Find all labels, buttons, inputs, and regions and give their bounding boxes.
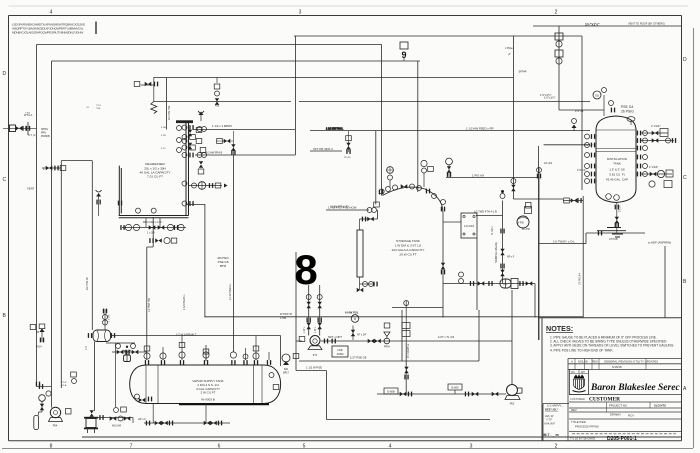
svg-text:1½"x1": 1½"x1" bbox=[575, 109, 584, 113]
wire loop arc bbox=[383, 187, 444, 317]
svg-text:TYLP: TYLP bbox=[61, 382, 67, 384]
svg-text:5: 5 bbox=[303, 444, 306, 450]
suction leg and catch pot bbox=[34, 402, 44, 430]
wire line 360 bbox=[299, 360, 479, 362]
svg-text:1 x 3/4: 1 x 3/4 bbox=[147, 232, 155, 235]
svg-text:AT HUB: AT HUB bbox=[609, 238, 618, 241]
frame grid numbers top bbox=[50, 10, 558, 16]
labels near distillation bbox=[575, 109, 660, 172]
svg-text:PC-P6: PC-P6 bbox=[344, 157, 351, 159]
svg-text:M.7 . _ m: M.7 . _ m bbox=[544, 433, 559, 437]
svg-text:MDNBVCXZLAKSJDHFGQWPEORIUTYBNM: MDNBVCXZLAKSJDHFGQWPEORIUTYBNMSDKLFJGHW bbox=[12, 31, 83, 35]
wire 1-D-001 outlet bbox=[476, 215, 503, 217]
loop arc flanged valves bbox=[379, 184, 446, 274]
distillation right assemblies bbox=[641, 129, 676, 188]
svg-text:2: 2 bbox=[555, 10, 558, 16]
degreaser tank bbox=[119, 120, 193, 218]
wire vertical 559 bbox=[558, 26, 560, 110]
valve pair on line S bbox=[332, 339, 409, 380]
wire left vertical 51 bbox=[51, 61, 53, 408]
wire line S 341 bbox=[296, 340, 512, 342]
left valve pair 168 bbox=[43, 166, 66, 172]
svg-text:PD/80B: PD/80B bbox=[41, 135, 50, 138]
ti circles line 185 bbox=[189, 182, 228, 190]
separator lower outlet bbox=[106, 343, 135, 407]
svg-text:NT x DF: NT x DF bbox=[357, 334, 367, 337]
sample vertical fittings bbox=[500, 190, 515, 276]
svg-text:SPT#P: SPT#P bbox=[519, 71, 527, 74]
svg-text:RCV: RCV bbox=[628, 414, 634, 418]
svg-text:C: C bbox=[3, 177, 7, 183]
valve box row y143 bbox=[216, 131, 236, 155]
svg-text:F014: F014 bbox=[36, 346, 42, 349]
svg-text:2 W CU FT: 2 W CU FT bbox=[201, 391, 216, 395]
svg-text:1 1/2 HW FEED x PR: 1 1/2 HW FEED x PR bbox=[466, 127, 494, 131]
E-600 tag 2 bbox=[448, 384, 462, 394]
svg-text:PSE G4: PSE G4 bbox=[621, 105, 633, 109]
line labels bottom center bbox=[176, 333, 455, 370]
svg-text:1 1/4 x 1 MPRV: 1 1/4 x 1 MPRV bbox=[212, 124, 232, 128]
svg-text:1/2 TWD 4TH 4-1 B: 1/2 TWD 4TH 4-1 B bbox=[474, 210, 497, 214]
wire vertical 295 bbox=[294, 36, 296, 155]
svg-text:1 PIG HX: 1 PIG HX bbox=[472, 174, 484, 178]
wire vertical 535 bbox=[534, 284, 536, 318]
svg-text:1.5' & 3' SS: 1.5' & 3' SS bbox=[609, 168, 625, 172]
wire vertical 296 bbox=[295, 252, 297, 371]
svg-text:CUSTOMER: CUSTOMER bbox=[589, 397, 620, 403]
wire separator out header bbox=[112, 335, 281, 337]
vapor tank bottom manifold valves bbox=[146, 404, 222, 426]
degreaser bottom manifold bbox=[120, 218, 186, 231]
svg-text:W PR3 HX: W PR3 HX bbox=[280, 313, 292, 316]
svg-text:TITLE P&ID: TITLE P&ID bbox=[571, 420, 586, 424]
flange on left line bbox=[36, 382, 40, 387]
left labels center bbox=[280, 313, 292, 320]
wire drain L line bbox=[296, 371, 490, 420]
distillation right nozzles bbox=[637, 131, 648, 177]
svg-text:REV: REV bbox=[571, 408, 577, 412]
line labels right bbox=[313, 22, 671, 245]
vapor tank nozzle stems bbox=[163, 336, 269, 361]
degreaser left wall flange bbox=[118, 201, 122, 206]
svg-text:8: 8 bbox=[294, 246, 317, 293]
svg-text:PI: PI bbox=[354, 317, 357, 321]
wire header D bbox=[153, 77, 513, 79]
wire vertical 538 bbox=[538, 146, 540, 340]
svg-text:GENERAL REVISION UTILITY UPDAT: GENERAL REVISION UTILITY UPDATES bbox=[604, 360, 658, 364]
svg-text:VVA.W.F: VVA.W.F bbox=[544, 422, 555, 426]
logo emblem bbox=[570, 370, 589, 395]
svg-text:DISTILLATION: DISTILLATION bbox=[607, 157, 627, 161]
degreaser interior heater circles bbox=[136, 208, 157, 213]
storage gauge column bbox=[357, 230, 363, 277]
svg-text:1½"x1½": 1½"x1½" bbox=[544, 96, 556, 100]
wire vertical 582 bbox=[581, 36, 583, 190]
svg-text:NP x F: NP x F bbox=[507, 256, 515, 259]
sample point riser bbox=[402, 301, 410, 359]
labels near 513 vertical bbox=[505, 47, 527, 74]
E-600 tag 1 bbox=[384, 388, 398, 394]
svg-text:CUSTOMER: CUSTOMER bbox=[570, 397, 585, 401]
manifold text bbox=[143, 221, 162, 235]
relief valve on header D bbox=[214, 78, 220, 108]
storage column bottom valves bbox=[357, 282, 378, 293]
svg-text:P04: P04 bbox=[53, 424, 58, 428]
storage column top valves bbox=[362, 202, 380, 221]
svg-text:Baron Blakeslee Serec: Baron Blakeslee Serec bbox=[590, 383, 680, 393]
svg-text:1/2 W ASPHALT: 1/2 W ASPHALT bbox=[176, 333, 197, 337]
degreaser top relief valve bbox=[198, 111, 204, 121]
wire line 307 bbox=[392, 307, 443, 309]
svg-text:1/2? x TL 3/4: 1/2? x TL 3/4 bbox=[438, 335, 455, 339]
relief station left bbox=[30, 324, 45, 349]
jumper 36 to 51 bbox=[37, 384, 52, 389]
svg-text:PROCESS PIPING: PROCESS PIPING bbox=[575, 425, 599, 429]
svg-text:WX: WX bbox=[581, 371, 585, 374]
fittings top of 539 bbox=[537, 162, 553, 178]
svg-text:SAMPLE VALVE: SAMPLE VALVE bbox=[494, 242, 498, 263]
svg-text:4 HW: 4 HW bbox=[280, 317, 287, 320]
left feed labels bbox=[24, 114, 50, 138]
wire left vertical 36 bbox=[36, 45, 38, 387]
svg-text:P02: P02 bbox=[510, 402, 515, 406]
1-D-001 filter box bbox=[443, 213, 477, 238]
relief valve left of degreaser bbox=[96, 190, 102, 216]
frame grid numbers bottom bbox=[50, 444, 558, 450]
svg-text:1/2 HW FR4 B: 1/2 HW FR4 B bbox=[206, 152, 222, 155]
svg-text:DRAWN: DRAWN bbox=[610, 413, 620, 417]
W PSL pump bbox=[517, 207, 532, 232]
drop leg with valve bbox=[351, 326, 367, 341]
svg-text:6 HW PSL: 6 HW PSL bbox=[345, 311, 359, 315]
instruments above pump bbox=[39, 391, 51, 401]
svg-text:6: 6 bbox=[218, 444, 221, 450]
wire vertical 583 bbox=[582, 196, 584, 318]
svg-text:1 W L: 1 W L bbox=[314, 326, 317, 333]
svg-text:1½ SAMPLE: 1½ SAMPLE bbox=[406, 343, 410, 358]
svg-text:E-60B: E-60B bbox=[387, 390, 394, 394]
wire line 177 bbox=[446, 177, 539, 179]
wire vertical 166 bbox=[166, 78, 168, 130]
storage tank label bbox=[392, 239, 425, 257]
svg-text:1 x 3/4: 1 x 3/4 bbox=[109, 314, 111, 322]
wire vertical 477 bbox=[477, 238, 479, 311]
top right double valve stack bbox=[555, 33, 563, 64]
fitting row above pump bbox=[61, 372, 77, 387]
feed valves left of vapor tank bbox=[112, 344, 147, 355]
svg-text:F 1A: F 1A bbox=[161, 126, 166, 129]
pump P04 bbox=[49, 407, 72, 427]
svg-text:D: D bbox=[3, 71, 7, 77]
degreaser nozzle line 129 bbox=[193, 129, 295, 131]
svg-text:29 W CU FT: 29 W CU FT bbox=[399, 253, 416, 257]
wire heater box bbox=[402, 310, 479, 361]
wire vertical 539 bbox=[538, 168, 540, 340]
svg-text:PR04: PR04 bbox=[384, 347, 390, 349]
degreaser wall nozzle circles bbox=[182, 125, 195, 206]
svg-text:7: 7 bbox=[130, 444, 133, 450]
wire vertical 417 bbox=[417, 61, 419, 192]
svg-text:W01 HW: W01 HW bbox=[112, 426, 122, 428]
wire vertical 512 bbox=[511, 290, 513, 385]
svg-text:BPLT: BPLT bbox=[283, 371, 289, 374]
svg-text:HP x F: HP x F bbox=[138, 417, 146, 421]
svg-text:4: 4 bbox=[50, 10, 53, 16]
svg-text:6T1: 6T1 bbox=[313, 353, 318, 357]
svg-text:TANK: TANK bbox=[613, 162, 621, 166]
right bottom gearbox bbox=[332, 346, 348, 357]
svg-text:3. APPLY ANTI-SEIZE ON THREADS: 3. APPLY ANTI-SEIZE ON THREADS OF LEVEL … bbox=[550, 344, 674, 348]
svg-text:2: 2 bbox=[555, 444, 558, 450]
wire ground line right bbox=[539, 233, 646, 244]
svg-text:1½"x1¼": 1½"x1¼" bbox=[585, 23, 600, 27]
legend stamp top-left bbox=[12, 23, 86, 35]
vapor tank left cap fittings bbox=[135, 394, 153, 402]
nozzle stem boxes bbox=[144, 343, 299, 359]
svg-text:X AN: X AN bbox=[25, 112, 30, 115]
svg-text:1½"x1": 1½"x1" bbox=[584, 143, 593, 147]
svg-text:F 1B: F 1B bbox=[161, 135, 166, 137]
wire line 204 bbox=[187, 204, 205, 206]
svg-text:1½ PIG 8-4: 1½ PIG 8-4 bbox=[578, 272, 582, 285]
distillation bottom piping bbox=[606, 194, 622, 233]
svg-text:1½ TW/DY x O-L: 1½ TW/DY x O-L bbox=[553, 240, 575, 244]
svg-text:PSE: PSE bbox=[215, 106, 220, 108]
svg-text:KN PSI: KN PSI bbox=[522, 228, 530, 231]
svg-text:NOTES:: NOTES: bbox=[546, 324, 573, 333]
svg-text:PROJECT NO: PROJECT NO bbox=[609, 404, 628, 408]
svg-text:1"x3/4": 1"x3/4" bbox=[649, 165, 658, 169]
valve pair right of degreaser 163 bbox=[198, 161, 204, 174]
title block bbox=[543, 359, 682, 441]
wire line 160 bbox=[61, 160, 92, 162]
svg-text:1 1/2 HW FR4 L: 1 1/2 HW FR4 L bbox=[326, 127, 344, 130]
rows text bbox=[544, 404, 666, 429]
wire vent header top right bbox=[533, 25, 681, 27]
funnel drain bbox=[384, 323, 391, 349]
svg-text:4: 4 bbox=[389, 444, 392, 450]
separator feed valves bbox=[103, 309, 111, 330]
vapor tank label bbox=[192, 379, 223, 402]
svg-text:D: D bbox=[683, 57, 687, 63]
svg-text:SG: SG bbox=[595, 94, 599, 98]
frame row letters bbox=[3, 57, 688, 392]
relief drop at 348 bbox=[344, 131, 351, 159]
distillation left nozzles bbox=[585, 134, 596, 184]
svg-text:OC.A: OC.A bbox=[61, 384, 67, 387]
wire left vertical 61 bbox=[60, 161, 62, 388]
wire stem 206 bbox=[205, 345, 207, 361]
svg-text:UFT PR 34/D 4: UFT PR 34/D 4 bbox=[313, 147, 333, 151]
wire top header bbox=[294, 35, 582, 37]
revision row text bbox=[571, 360, 658, 370]
vapor tank bottom weld bbox=[179, 403, 269, 405]
svg-text:BTM: BTM bbox=[220, 264, 227, 268]
distillation label bbox=[606, 157, 628, 182]
svg-text:F-P: F-P bbox=[85, 346, 88, 350]
svg-text:1 1/2 W PSE: 1 1/2 W PSE bbox=[306, 366, 322, 370]
distillation tank bbox=[596, 116, 636, 203]
svg-text:4 x W BARDLL: 4 x W BARDLL bbox=[229, 283, 232, 300]
pump 6T1 bbox=[299, 336, 328, 358]
vapor tank top nozzles bbox=[144, 352, 271, 365]
svg-text:D205-P001-1: D205-P001-1 bbox=[607, 436, 637, 442]
svg-text:43.46 GAL. CAP: 43.46 GAL. CAP bbox=[606, 178, 628, 182]
vapor tank right cap fittings bbox=[269, 373, 279, 390]
wire vertical 406 bbox=[405, 343, 407, 394]
distillation top instruments bbox=[559, 88, 635, 126]
svg-text:26 PSIG: 26 PSIG bbox=[621, 110, 634, 114]
wire riser 319 bbox=[319, 285, 321, 336]
wire vertical 153 bbox=[147, 217, 153, 360]
wire storage feed corner bbox=[360, 131, 378, 219]
wire header C bbox=[52, 60, 421, 62]
relief at header right end bbox=[572, 119, 577, 132]
big center box label bbox=[217, 256, 229, 268]
F9 pump assembly bbox=[459, 272, 533, 289]
svg-text:1 W L: 1 W L bbox=[303, 326, 306, 333]
wire mid header 101 bbox=[154, 101, 590, 103]
svg-text:VENT: VENT bbox=[27, 187, 35, 191]
svg-text:F 1C: F 1C bbox=[161, 148, 166, 150]
cluster below vapor tank left bbox=[110, 407, 131, 428]
svg-text:N. 1/2 x: N. 1/2 x bbox=[491, 226, 494, 235]
degreaser label bbox=[140, 162, 171, 179]
svg-text:N.T. (2: N.T. (2 bbox=[28, 134, 36, 137]
svg-text:224 GAL/LA CAPACITY: 224 GAL/LA CAPACITY bbox=[392, 248, 425, 252]
svg-text:4. PIPE POS LINE TO HIGH END O: 4. PIPE POS LINE TO HIGH END OF TANK. bbox=[550, 349, 613, 353]
svg-text:SLD NTS: SLD NTS bbox=[654, 404, 666, 408]
tiny labels left column bbox=[25, 105, 102, 115]
ground symbol bbox=[597, 228, 626, 238]
svg-text:A: A bbox=[571, 360, 573, 364]
svg-text:NPT x NPT: NPT x NPT bbox=[328, 335, 342, 339]
PI circle on header bbox=[345, 311, 359, 323]
wire vertical 382 bbox=[381, 45, 383, 196]
wire vertical 665 bbox=[664, 246, 666, 318]
svg-text:LWR: LWR bbox=[337, 349, 342, 352]
wire vertical 513 bbox=[513, 36, 563, 199]
svg-text:6/18/18: 6/18/18 bbox=[612, 365, 622, 369]
svg-text:VENT TO ROOF (BY OTHERS): VENT TO ROOF (BY OTHERS) bbox=[628, 22, 665, 26]
valve stubs near 8 bbox=[303, 295, 322, 334]
vent tee on ground line bbox=[598, 231, 602, 236]
wire vertical 233 bbox=[232, 155, 234, 352]
NOTES box bbox=[538, 318, 682, 441]
svg-text:1/2? PSE G8: 1/2? PSE G8 bbox=[350, 356, 367, 360]
wire main header R bbox=[205, 316, 583, 318]
vapor supply tank bbox=[130, 365, 281, 404]
svg-text:T/1.18 5/7/18 CHKD: T/1.18 5/7/18 CHKD bbox=[570, 437, 595, 441]
wire line 210 bbox=[326, 209, 369, 211]
PSE label bbox=[621, 105, 634, 114]
wire line 155 bbox=[195, 154, 295, 156]
lower filter vessel bbox=[84, 410, 133, 433]
wire vapor cap riser bbox=[280, 336, 282, 367]
svg-text:6/21/18: 6/21/18 bbox=[578, 360, 588, 364]
wire left vertical 92 bbox=[91, 161, 93, 330]
svg-text:1 1/4 BARDLL: 1 1/4 BARDLL bbox=[183, 293, 186, 310]
svg-text:1/2 x3/4: 1/2 x3/4 bbox=[544, 162, 553, 165]
manifold second row bbox=[149, 238, 177, 244]
svg-text:W PSI: W PSI bbox=[517, 222, 524, 225]
corner box 513 bbox=[511, 179, 583, 286]
svg-text:NO: NO bbox=[571, 371, 575, 374]
svg-text:DEE USL*: DEE USL* bbox=[545, 408, 559, 412]
svg-text:E-609: E-609 bbox=[452, 386, 459, 390]
pump P02 bbox=[505, 385, 522, 406]
wire F9 line bbox=[443, 283, 535, 285]
9 tag bbox=[400, 42, 408, 61]
wire center header bbox=[310, 130, 590, 132]
svg-text:1"x3/4": 1"x3/4" bbox=[651, 124, 660, 128]
wire sample vertical 502 bbox=[502, 201, 504, 284]
svg-text:3: 3 bbox=[299, 10, 302, 16]
svg-text:MFD LWR x L/W: MFD LWR x L/W bbox=[143, 221, 162, 224]
svg-text:1 W DIA & 3 ST LG: 1 W DIA & 3 ST LG bbox=[395, 244, 422, 248]
wire separator link bbox=[94, 342, 96, 412]
wire vertical 205 bbox=[204, 204, 206, 318]
wire header B bbox=[37, 44, 382, 46]
svg-text:1-D-001: 1-D-001 bbox=[464, 224, 475, 228]
small pump bottom left center bbox=[282, 354, 290, 374]
svg-text:1/2 PRV 30: 1/2 PRV 30 bbox=[86, 277, 89, 290]
svg-text:7.01 CU FT: 7.01 CU FT bbox=[147, 175, 163, 179]
wire line 151 bbox=[310, 150, 342, 152]
svg-text:DEGREASER: DEGREASER bbox=[145, 162, 165, 166]
svg-text:1/2 PWT HW: 1/2 PWT HW bbox=[148, 297, 151, 312]
svg-text:1½"x1": 1½"x1" bbox=[577, 168, 586, 172]
svg-text:7313: 7313 bbox=[96, 105, 102, 107]
svg-text:to ADF (ASPIRIN): to ADF (ASPIRIN) bbox=[648, 241, 671, 245]
label line 131 bbox=[326, 127, 344, 130]
svg-text:REV: REV bbox=[592, 360, 598, 364]
degreaser freeboard valve stack bbox=[177, 126, 206, 153]
loop top instruments bbox=[379, 158, 452, 194]
svg-text:3: 3 bbox=[470, 444, 473, 450]
water separator bbox=[88, 330, 115, 342]
svg-text:8: 8 bbox=[50, 444, 53, 450]
svg-text:5.81 CU. Ft: 5.81 CU. Ft bbox=[609, 173, 625, 177]
svg-text:ASSM: ASSM bbox=[337, 353, 344, 356]
svg-text:1 HW PR3 4-8S HOW: 1 HW PR3 4-8S HOW bbox=[328, 206, 357, 210]
top area valve station bbox=[134, 78, 158, 114]
svg-text:1/2 PRV HW: 1/2 PRV HW bbox=[168, 105, 171, 120]
wire left 168 bbox=[42, 167, 61, 169]
wire pump suction line bbox=[377, 393, 506, 395]
left feed station bbox=[3, 122, 36, 135]
suction line valves bbox=[400, 392, 499, 397]
svg-text:J P0pe: J P0pe bbox=[505, 47, 513, 50]
wire tank bottom manifold bbox=[144, 422, 230, 424]
svg-text:(J": (J" bbox=[508, 53, 511, 56]
wire line 145 right bbox=[544, 144, 590, 146]
svg-text:W-V003 B: W-V003 B bbox=[201, 398, 215, 402]
wire riser 308 bbox=[308, 285, 310, 336]
svg-text:C: C bbox=[683, 175, 687, 181]
svg-text:STORAGE TANK: STORAGE TANK bbox=[396, 239, 421, 243]
svg-text:TNB: TNB bbox=[96, 108, 101, 110]
